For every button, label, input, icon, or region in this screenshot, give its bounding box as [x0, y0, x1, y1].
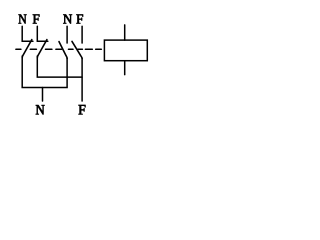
label N top input 2 [63, 15, 72, 24]
contact 2 foot (NC seat) [37, 40, 48, 42]
relay coil box [104, 40, 147, 61]
contact 2 lever [37, 40, 47, 58]
coil bottom wire [124, 61, 126, 75]
contact 4 lever [72, 41, 82, 58]
wire: contact 1 descender, lower bus, riser to contact 3 [22, 56, 67, 88]
contact 3 lever [59, 42, 67, 59]
wire: N output stub [42, 88, 44, 102]
label N bottom output [36, 105, 45, 114]
mechanical linkage dashed line [16, 48, 101, 50]
contact 2 terminal wire [36, 26, 38, 41]
contact 4 terminal wire [81, 26, 83, 43]
coil top wire [124, 25, 126, 40]
contact 1 foot (NC seat) [22, 40, 33, 42]
wire: F output stub (contact 4 descender through upper bus) [81, 58, 83, 101]
wire: contact 2 descender, upper bus to contact 4 riser [37, 56, 82, 77]
label F bottom output [79, 105, 86, 114]
label N top input 1 [19, 15, 27, 24]
label F top input 1 [33, 15, 40, 24]
contact 3 terminal wire [66, 26, 68, 43]
contact 1 terminal wire [21, 26, 23, 41]
label F top input 2 [76, 15, 83, 24]
contact 1 lever [22, 40, 32, 58]
